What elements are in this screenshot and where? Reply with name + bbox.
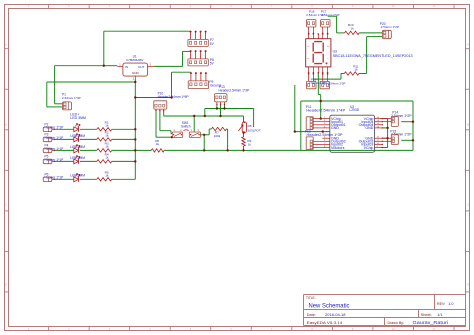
svg-text:1k: 1k: [354, 68, 358, 72]
svg-text:2.54mm 1*2P: 2.54mm 1*2P: [322, 13, 340, 17]
svg-text:1k: 1k: [351, 26, 355, 30]
svg-text:A: A: [5, 43, 7, 47]
svg-text:100k: 100k: [214, 134, 221, 138]
svg-text:Header 1*1P: Header 1*1P: [45, 176, 65, 180]
svg-text:2018-04-18: 2018-04-18: [325, 312, 346, 317]
svg-text:Switch: Switch: [181, 124, 191, 128]
svg-text:IN: IN: [125, 65, 128, 69]
svg-text:1k: 1k: [105, 134, 109, 138]
svg-text:1.0: 1.0: [448, 302, 453, 306]
svg-text:Header 1*1P: Header 1*1P: [45, 136, 65, 140]
svg-text:1k: 1k: [105, 145, 109, 149]
svg-text:LED 3MM: LED 3MM: [70, 134, 85, 138]
svg-text:Date:: Date:: [307, 313, 316, 317]
svg-text:Header 1*1P: Header 1*1P: [45, 158, 65, 162]
svg-text:GND: GND: [365, 126, 373, 130]
svg-text:TITLE:: TITLE:: [306, 296, 316, 300]
svg-text:1k: 1k: [105, 156, 109, 160]
svg-text:Drawn By:: Drawn By:: [388, 321, 405, 325]
svg-text:C: C: [467, 202, 469, 206]
svg-text:Sheet:: Sheet:: [421, 313, 432, 317]
svg-text:A: A: [467, 43, 469, 47]
svg-text:VMotors: VMotors: [331, 146, 345, 150]
svg-text:1k: 1k: [105, 123, 109, 127]
svg-text:L293D: L293D: [349, 108, 359, 112]
svg-text:Header2.54mm 1*3P: Header2.54mm 1*3P: [219, 88, 251, 92]
svg-text:LED 3MM: LED 3MM: [70, 174, 85, 178]
svg-text:P19 2.54mm 1*2P: P19 2.54mm 1*2P: [322, 82, 346, 86]
svg-text:GND: GND: [132, 71, 140, 75]
svg-text:2.54mm 1*2P: 2.54mm 1*2P: [381, 25, 399, 29]
svg-text:1k: 1k: [156, 142, 160, 146]
svg-text:C78M05ABV: C78M05ABV: [126, 58, 143, 62]
svg-text:B: B: [5, 123, 7, 127]
svg-text:EasyEDA V5.3.14: EasyEDA V5.3.14: [307, 320, 343, 325]
svg-text:Header 1*1P: Header 1*1P: [45, 147, 65, 151]
svg-text:Header 1*1P: Header 1*1P: [45, 126, 65, 130]
svg-text:Header2.54mm 1*4P: Header2.54mm 1*4P: [306, 109, 346, 113]
svg-text:B: B: [467, 123, 469, 127]
svg-text:VChip: VChip: [364, 146, 374, 150]
svg-text:GND: GND: [331, 126, 339, 130]
svg-text:SBC18-11EGWA_7SEGMENTLED_14SEP: SBC18-11EGWA_7SEGMENTLED_14SEP2013: [333, 54, 413, 58]
svg-text:LED 3MM: LED 3MM: [70, 116, 86, 120]
svg-text:LED 3MM: LED 3MM: [70, 156, 85, 160]
svg-text:D: D: [467, 282, 469, 286]
svg-text:OUT: OUT: [138, 65, 145, 69]
svg-text:1k: 1k: [248, 143, 252, 147]
svg-text:D: D: [5, 282, 7, 286]
svg-text:U3: U3: [333, 49, 337, 53]
svg-text:REV:: REV:: [437, 302, 445, 306]
svg-text:C: C: [5, 202, 7, 206]
svg-text:LED 3MM: LED 3MM: [70, 145, 85, 149]
svg-text:2.54mm 1*3P: 2.54mm 1*3P: [62, 96, 81, 100]
svg-text:1/1: 1/1: [437, 313, 442, 317]
svg-text:New Schematic: New Schematic: [309, 304, 350, 310]
svg-text:103LPOT: 103LPOT: [248, 128, 261, 132]
svg-text:1k: 1k: [105, 173, 109, 177]
svg-text:Header2.54mm 1*9P: Header2.54mm 1*9P: [158, 95, 190, 99]
svg-text:Gaurav_Raturi: Gaurav_Raturi: [413, 320, 449, 325]
